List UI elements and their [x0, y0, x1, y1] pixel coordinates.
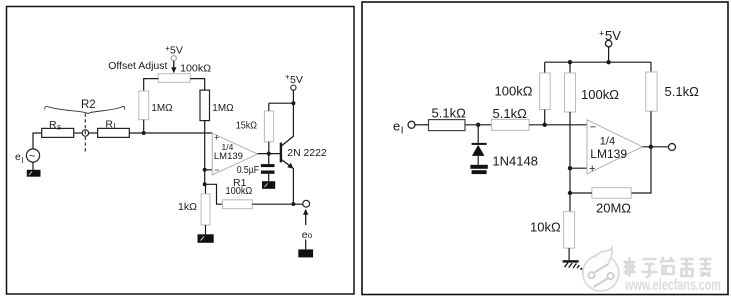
wire source to ground: [32, 162, 34, 170]
ground below capacitor: [262, 181, 275, 189]
svg-text:LM139: LM139: [214, 151, 243, 162]
capacitor 0.5uF: [261, 154, 275, 182]
svg-text:s: s: [57, 123, 61, 132]
+5V terminal circle: [171, 56, 176, 61]
op-amp U2: [587, 120, 642, 174]
output terminal circle: [303, 200, 310, 207]
wire pot right leg: [190, 79, 205, 91]
label Rs: [49, 119, 61, 132]
svg-text:5.1kΩ: 5.1kΩ: [432, 106, 467, 121]
+5V label right panel: [599, 28, 621, 43]
svg-text:2N 2222: 2N 2222: [287, 147, 327, 159]
resistor Ri: [98, 128, 130, 137]
resistor 1M right: [200, 90, 210, 121]
wire source to Rs: [33, 133, 42, 149]
resistor 20M: [592, 188, 631, 199]
svg-text:R: R: [49, 119, 57, 131]
resistor 100k left: [540, 62, 551, 125]
svg-text:10kΩ: 10kΩ: [530, 220, 561, 235]
ground below 1k: [198, 234, 214, 243]
node minus input: [203, 168, 207, 172]
wire to diode node: [465, 124, 492, 126]
+5V terminal circle right: [291, 85, 296, 90]
wiper arrow into pot: [171, 61, 176, 73]
svg-text:R: R: [105, 119, 113, 131]
node collector rail: [291, 101, 295, 105]
left panel frame: [7, 7, 355, 295]
label eo: [302, 229, 313, 241]
+5V terminal circle right panel: [605, 40, 611, 46]
wire 15k top to rail: [268, 103, 270, 111]
svg-text:1kΩ: 1kΩ: [178, 201, 197, 213]
svg-text:1MΩ: 1MΩ: [151, 102, 172, 114]
label R1 100k: [226, 177, 253, 197]
transistor Q1 2N2222: [281, 103, 294, 204]
diode 1N4148: [472, 125, 487, 165]
svg-text:+: +: [589, 163, 595, 175]
wire in: [415, 124, 429, 126]
wire node to Ri: [89, 132, 98, 134]
svg-text:~: ~: [29, 151, 35, 163]
svg-text:100kΩ: 100kΩ: [180, 63, 211, 75]
wire opamp out to base: [258, 153, 281, 155]
node rail supply: [606, 60, 610, 64]
wire eo to ground: [305, 240, 307, 250]
label ei right: [393, 119, 404, 137]
wire plus input stub: [570, 167, 587, 169]
+5V label right: [285, 73, 303, 87]
resistor 5.1k second: [492, 119, 529, 130]
svg-text:15kΩ: 15kΩ: [236, 120, 257, 132]
node rail 100k right: [568, 60, 572, 64]
node 1M left junction: [142, 131, 146, 135]
ground below diode: [470, 165, 487, 174]
+5V supply label (left panel top): [165, 44, 183, 57]
wire minus node to R1: [206, 184, 223, 204]
node tap circle: [82, 130, 88, 136]
ground below eo: [298, 249, 313, 257]
output terminal circle right: [669, 144, 676, 151]
ground below source: [27, 170, 41, 177]
svg-text:−: −: [590, 121, 596, 133]
input terminal circle: [408, 121, 415, 128]
wire 15k bottom to output node: [268, 142, 270, 154]
svg-text:+: +: [599, 29, 604, 39]
wire +5V down: [292, 90, 294, 103]
node 100k left bottom: [543, 123, 547, 127]
svg-text:Offset Adjust: Offset Adjust: [108, 60, 167, 72]
svg-text:I: I: [22, 156, 24, 165]
svg-text:o: o: [308, 231, 313, 240]
svg-text:−: −: [214, 165, 219, 175]
resistor 5.1k pull-up: [646, 62, 657, 147]
svg-text:I: I: [401, 126, 404, 137]
svg-text:0.5µF: 0.5µF: [237, 164, 259, 176]
+5V rail right panel: [545, 61, 651, 63]
ground earth symbol: [563, 260, 583, 270]
svg-text:R2: R2: [81, 99, 96, 111]
resistor 15k: [264, 111, 273, 142]
wire R1 to output line: [252, 203, 303, 205]
resistor 1M left: [139, 91, 149, 120]
svg-text:+: +: [214, 133, 219, 143]
potentiometer 100k body: [158, 74, 190, 83]
wire collector rail: [269, 102, 294, 104]
node feedback junction: [203, 182, 207, 186]
resistor 10k: [564, 193, 575, 260]
svg-text:5.1kΩ: 5.1kΩ: [493, 106, 528, 121]
wire main input line: [129, 132, 212, 134]
eo measurement arrow: [303, 209, 308, 225]
right panel frame: [362, 2, 728, 295]
wire 1M left to input line: [143, 120, 145, 133]
svg-text:1MΩ: 1MΩ: [212, 102, 233, 114]
source ei: [15, 149, 40, 165]
svg-text:20MΩ: 20MΩ: [596, 201, 631, 216]
wire +5V to rail: [608, 47, 610, 62]
svg-text:100kΩ: 100kΩ: [495, 84, 533, 99]
node output: [267, 152, 271, 156]
svg-text:1/4: 1/4: [600, 136, 615, 148]
wire output: [642, 146, 668, 148]
watermark logo: [583, 248, 619, 292]
svg-text:5V: 5V: [170, 45, 183, 57]
wire feedback down: [631, 147, 651, 193]
wire to minus input: [529, 124, 587, 126]
svg-text:e: e: [15, 151, 21, 163]
resistor 5.1k first: [429, 120, 466, 131]
node 20M junction: [568, 191, 572, 195]
wire pot left leg: [144, 79, 159, 91]
resistor 100k right: [565, 62, 576, 193]
resistor R1: [223, 200, 253, 209]
svg-text:e: e: [393, 119, 400, 134]
svg-text:100kΩ: 100kΩ: [581, 87, 619, 102]
svg-text:100kΩ: 100kΩ: [226, 185, 253, 197]
wire 20M to plus node: [570, 192, 592, 194]
dashed tap line: [84, 114, 86, 152]
node diode junction: [476, 123, 480, 127]
node output: [649, 145, 653, 149]
node plus divider: [568, 166, 572, 170]
label Ri: [105, 119, 115, 132]
op-amp U1: [212, 133, 257, 175]
resistor 1k: [178, 184, 210, 234]
wire Rs to node: [74, 132, 83, 134]
brace R2: [45, 106, 125, 113]
svg-text:LM139: LM139: [590, 147, 627, 161]
wire minus input stub: [205, 169, 213, 171]
watermark chinese text: [624, 257, 712, 277]
svg-text:www.elecfans.com: www.elecfans.com: [624, 277, 721, 294]
node emitter/output: [291, 202, 295, 206]
svg-text:5V: 5V: [290, 74, 303, 86]
svg-text:I: I: [113, 122, 115, 131]
svg-text:5.1kΩ: 5.1kΩ: [665, 84, 700, 99]
svg-text:1N4148: 1N4148: [492, 154, 538, 169]
resistor Rs: [42, 128, 74, 137]
wire 1M right down to inverting node: [204, 121, 206, 185]
